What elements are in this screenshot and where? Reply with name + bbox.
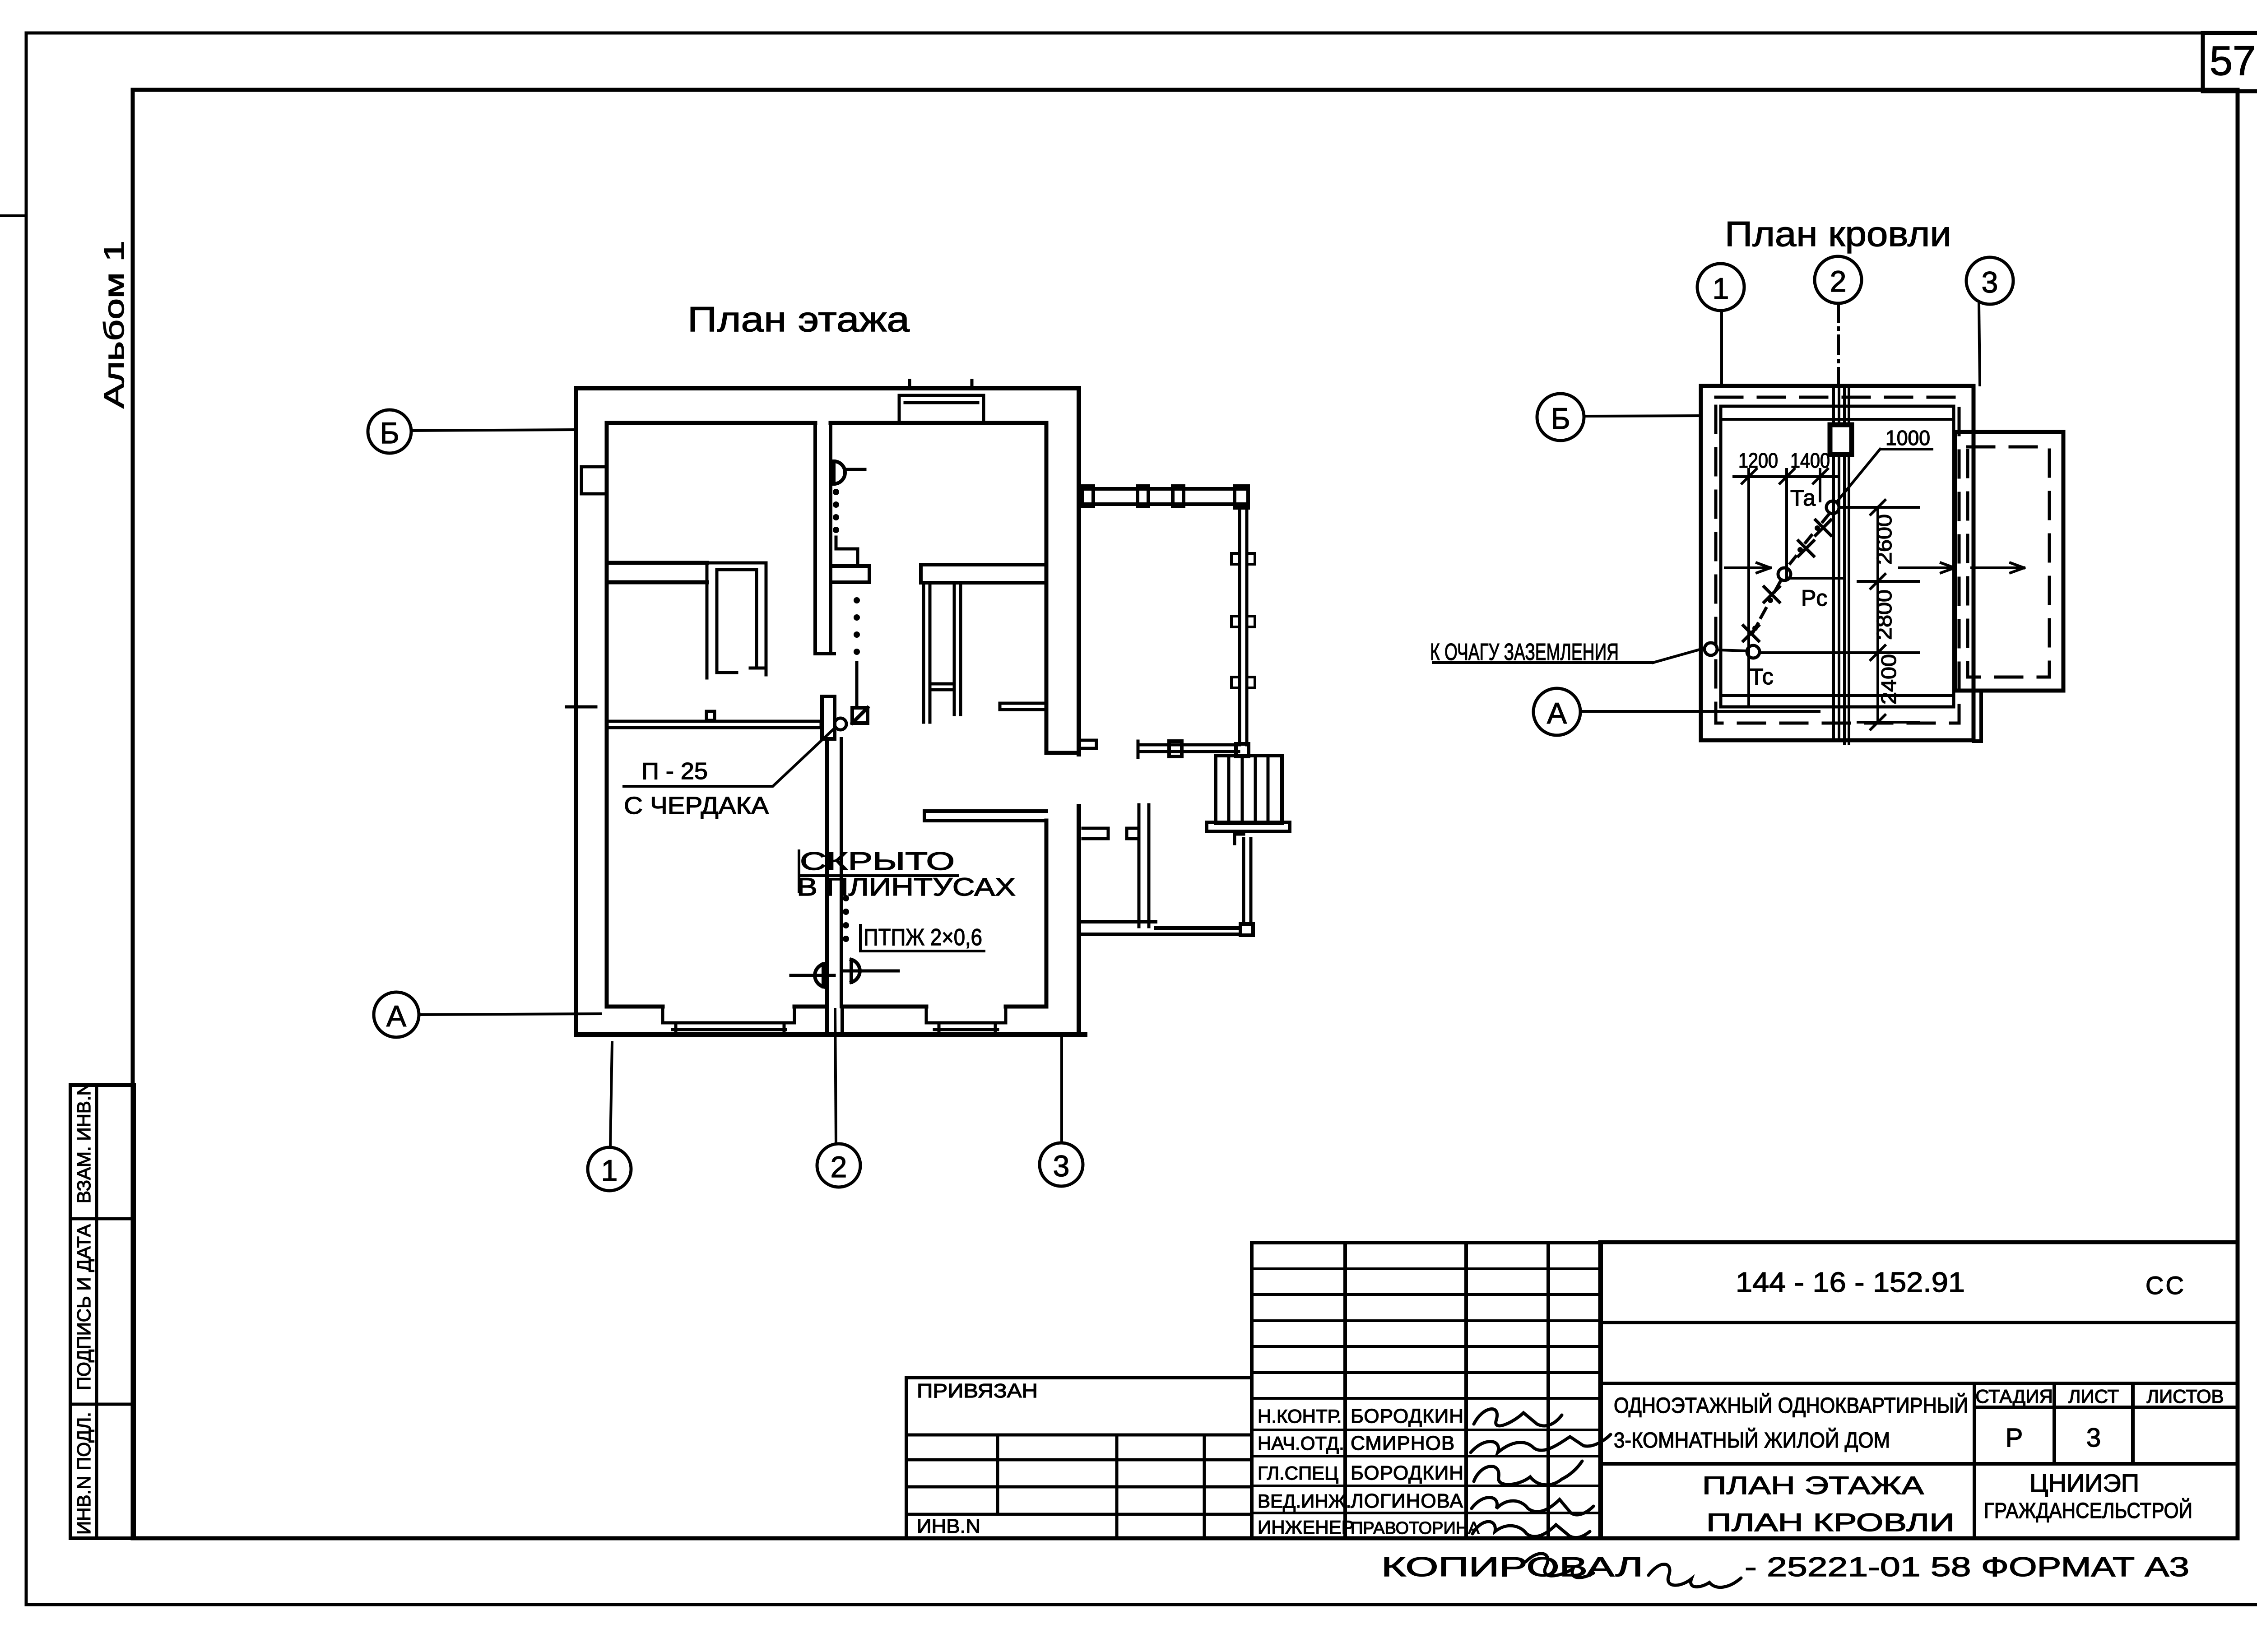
svg-text:144 - 16 - 152.91: 144 - 16 - 152.91: [1736, 1267, 1965, 1298]
leader P-25: [624, 729, 834, 786]
bottom-left stamp strip: [70, 1085, 134, 1538]
stamp strip row divider 1: [70, 1217, 134, 1220]
wall top outer: [576, 386, 1079, 390]
junction circle: [835, 718, 846, 730]
svg-text:ПЛАН КРОВЛИ: ПЛАН КРОВЛИ: [1706, 1508, 1955, 1536]
partition bottom rooms: [827, 739, 841, 1007]
partition top rooms: [815, 423, 834, 654]
svg-text:Н.КОНТР.: Н.КОНТР.: [1258, 1406, 1342, 1427]
signatures squiggles: [1471, 1409, 1741, 1587]
stair landing: [1207, 822, 1290, 831]
wall right inner face: [1045, 423, 1049, 753]
svg-text:2: 2: [1830, 265, 1847, 298]
lamp symbol right: [851, 960, 860, 982]
svg-text:КОПИРОВАЛ: КОПИРОВАЛ: [1381, 1552, 1643, 1582]
svg-text:СМИРНОВ: СМИРНОВ: [1351, 1432, 1455, 1454]
attachment table outline: [906, 1378, 1252, 1538]
svg-text:- 25221-01 58 ФОРМАТ А3: - 25221-01 58 ФОРМАТ А3: [1745, 1552, 2189, 1582]
Pc horizontal line: [1791, 577, 1844, 580]
wall right outer lower: [1077, 806, 1081, 1035]
svg-text:Б: Б: [1551, 402, 1570, 435]
veranda right wall upper: [1240, 504, 1247, 745]
dim slash ticks top: [1742, 469, 1828, 483]
underline ptpzh: [860, 950, 984, 952]
axis B leader: [411, 430, 576, 431]
svg-text:2600: 2600: [1872, 514, 1896, 565]
wall left outer: [574, 388, 578, 1035]
svg-text:1200: 1200: [1738, 449, 1778, 472]
grounding note leader: [1653, 648, 1704, 663]
axis A leader: [419, 1014, 600, 1015]
main title box: [1600, 1242, 2238, 1538]
axis B circle roof: [1537, 394, 1584, 441]
axis 1 circle: [588, 1147, 631, 1191]
lamp symbol left: [815, 964, 823, 987]
axis 1 leader: [610, 1043, 612, 1147]
svg-text:ЛИСТОВ: ЛИСТОВ: [2146, 1386, 2224, 1407]
svg-text:А: А: [386, 999, 406, 1033]
svg-text:К ОЧАГУ ЗАЗЕМЛЕНИЯ: К ОЧАГУ ЗАЗЕМЛЕНИЯ: [1430, 639, 1619, 665]
roof dashed eaves rect: [1716, 397, 1959, 723]
lower wall top hook: [1235, 834, 1244, 844]
closet top-left room: [707, 563, 766, 678]
lamp right stem: [841, 970, 898, 973]
svg-text:СС: СС: [2146, 1271, 2186, 1299]
ptpzh tick: [859, 925, 862, 951]
veranda top posts: [1082, 486, 1093, 506]
wall bottom inner segments: [607, 1005, 1046, 1009]
roof inner wall rect: [1721, 406, 1954, 707]
svg-text:А: А: [1547, 696, 1567, 730]
svg-text:План кровли: План кровли: [1725, 214, 1951, 254]
veranda railing to stair: [1138, 741, 1239, 757]
svg-text:ПОДПИСЬ И ДАТА: ПОДПИСЬ И ДАТА: [73, 1224, 94, 1390]
tie from house wall lower: [1083, 828, 1108, 839]
conductor Ta to chimney diagonal: [1837, 449, 1880, 502]
underline skryto: [800, 874, 958, 877]
wall tie tick left wall: [567, 705, 596, 709]
svg-text:ВЗАМ. ИНВ.N: ВЗАМ. ИНВ.N: [73, 1082, 94, 1203]
dim extension line x1200: [1747, 469, 1750, 707]
hidden wiring dots upper: [833, 489, 839, 533]
wall right inner lower: [1045, 821, 1049, 1007]
thin partition bottom-left room: [610, 721, 821, 728]
Pc circle: [1778, 568, 1791, 580]
svg-text:БОРОДКИН: БОРОДКИН: [1351, 1405, 1464, 1427]
conductor dashdot Ta-Pc: [1790, 515, 1829, 563]
svg-text:ОДНОЭТАЖНЫЙ ОДНОКВАРТИРНЫЙ: ОДНОЭТАЖНЫЙ ОДНОКВАРТИРНЫЙ: [1614, 1393, 1968, 1418]
slope arrow left: [1725, 563, 1770, 573]
duct partition living room: [924, 583, 961, 722]
svg-text:1400: 1400: [1790, 449, 1830, 472]
Tc horizontal dim line: [1760, 651, 1918, 654]
svg-text:1000: 1000: [1885, 426, 1930, 450]
dim extension line x1400: [1785, 469, 1788, 580]
label 1000 underline: [1880, 448, 1932, 450]
veranda roof rect: [1955, 432, 2063, 691]
axis B leader roof: [1584, 416, 1700, 416]
svg-text:СКРЫТО: СКРЫТО: [800, 847, 955, 875]
axis 2 circle roof: [1815, 256, 1862, 303]
grounding conductor Ta circle: [1826, 501, 1839, 514]
svg-text:П - 25: П - 25: [641, 758, 708, 784]
wall top inner face left segment: [607, 421, 815, 425]
tie from house wall upper: [1081, 740, 1096, 748]
wiring jog: [836, 537, 858, 565]
axis B circle: [368, 410, 411, 453]
canopy tick 2: [971, 381, 974, 388]
slope arrow right: [1972, 563, 2024, 573]
Ta level dim line: [1839, 506, 1918, 509]
wall bottom outer: [576, 1032, 1085, 1037]
svg-text:Р: Р: [2006, 1423, 2023, 1452]
svg-text:ЦНИИЭП: ЦНИИЭП: [2029, 1469, 2139, 1497]
canopy tick 1: [908, 381, 911, 388]
top-left room bottom wall band: [607, 563, 707, 582]
Tc circle: [1747, 645, 1760, 658]
stamp strip column divider: [95, 1085, 98, 1538]
svg-text:В ПЛИНТУСАХ: В ПЛИНТУСАХ: [797, 872, 1016, 901]
svg-text:2800: 2800: [1872, 589, 1896, 640]
veranda inner L post: [1127, 805, 1149, 927]
svg-text:НАЧ.ОТД.: НАЧ.ОТД.: [1258, 1433, 1344, 1454]
signature table: [1252, 1243, 1601, 1538]
svg-text:ГРАЖДАНСЕЛЬСТРОЙ: ГРАЖДАНСЕЛЬСТРОЙ: [1984, 1498, 2192, 1523]
svg-text:ПРАВОТОРИНА: ПРАВОТОРИНА: [1351, 1519, 1480, 1538]
svg-text:57: 57: [2210, 38, 2256, 84]
dim extension line right: [1819, 469, 1821, 501]
door post mid plan: [822, 696, 835, 739]
conductor dashdot Pc-Tc: [1753, 582, 1780, 632]
svg-text:2: 2: [831, 1150, 847, 1183]
svg-text:2400: 2400: [1877, 654, 1900, 705]
svg-text:Та: Та: [1790, 485, 1816, 510]
fold mark left margin: [1, 214, 25, 217]
axis 3 circle roof: [1966, 257, 2013, 304]
stub wall segment: [831, 566, 869, 582]
X marks Ta-Pc: [1798, 520, 1831, 556]
right dim slash ticks: [1871, 500, 1885, 729]
svg-text:ПЛАН ЭТАЖА: ПЛАН ЭТАЖА: [1702, 1471, 1924, 1499]
axis 1 leader roof: [1720, 311, 1723, 385]
title block texts: [917, 1267, 2224, 1582]
roof inner second bottom line: [1721, 694, 1954, 697]
veranda right wall lower: [1244, 839, 1251, 924]
window W2 bottom: [926, 1007, 1006, 1034]
roof bottom right step: [1974, 691, 1981, 741]
svg-text:Альбом 1: Альбом 1: [99, 241, 130, 408]
axis 1 circle roof: [1697, 264, 1744, 311]
bottom-right room top wall: [924, 811, 1046, 821]
svg-text:ЛИСТ: ЛИСТ: [2068, 1386, 2119, 1407]
stair treads: [1229, 756, 1268, 823]
railing post square: [1169, 741, 1182, 756]
axis 3 leader roof: [1979, 304, 1980, 385]
axis 2 circle: [817, 1144, 860, 1187]
svg-text:1: 1: [1713, 272, 1729, 305]
axis 3 leader: [1060, 1036, 1063, 1143]
junction box P-25: [852, 708, 868, 723]
svg-text:3: 3: [2086, 1423, 2101, 1452]
veranda top wall: [1079, 489, 1248, 504]
dim line horizontal top: [1734, 475, 1836, 478]
axis A circle roof: [1533, 688, 1580, 735]
ground connection circle on eaves: [1704, 643, 1717, 655]
roof inner second top line: [1721, 418, 1954, 421]
svg-text:3: 3: [1982, 265, 1998, 299]
chimney: [1830, 425, 1852, 455]
veranda bottom corner square: [1240, 924, 1253, 935]
svg-text:ИНЖЕНЕР: ИНЖЕНЕР: [1258, 1517, 1354, 1538]
lamp left stem: [791, 974, 834, 977]
leader skryto tick: [798, 851, 800, 891]
svg-text:3: 3: [1053, 1149, 1070, 1183]
hidden wiring dots mid: [854, 597, 860, 655]
stamp strip row divider 2: [70, 1403, 134, 1406]
wall left inner face: [605, 423, 609, 1007]
hidden wiring dots lower: [843, 895, 849, 942]
door jambs bottom door: [827, 1007, 842, 1035]
roof outer rect: [1701, 386, 1974, 740]
axis 2 leader roof dash-dot: [1837, 303, 1840, 385]
wall right outer upper: [1077, 388, 1081, 754]
svg-text:БОРОДКИН: БОРОДКИН: [1351, 1462, 1464, 1484]
axis 3 circle: [1040, 1143, 1083, 1186]
svg-text:ПТПЖ 2×0,6: ПТПЖ 2×0,6: [864, 924, 982, 951]
sheet number box: [2203, 33, 2257, 91]
svg-text:Б: Б: [380, 416, 399, 450]
window W3 left wall: [581, 467, 607, 494]
wall top inner face right segment: [831, 421, 1044, 425]
veranda roof dashed rect: [1968, 447, 2049, 677]
sconce on partition: [834, 461, 845, 484]
axis A circle: [374, 992, 419, 1037]
bottom dim line: [1858, 721, 1918, 724]
Tc to eaves line: [1717, 650, 1747, 651]
svg-text:Рс: Рс: [1801, 585, 1827, 611]
svg-text:План этажа: План этажа: [687, 299, 910, 339]
svg-text:ИНВ.N ПОДЛ.: ИНВ.N ПОДЛ.: [73, 1412, 94, 1535]
slope arrow mid: [1899, 563, 1955, 573]
veranda bottom wall: [1083, 922, 1240, 934]
roof valley lines: [1834, 386, 1849, 744]
wall right jog at passage: [1046, 751, 1079, 755]
axis A leader roof: [1580, 710, 1819, 713]
svg-text:ИНВ.N: ИНВ.N: [917, 1515, 980, 1537]
veranda wall ties: [1231, 553, 1255, 564]
X marks Pc-Tc: [1743, 587, 1779, 641]
wiring drop to box: [855, 663, 859, 707]
svg-text:1: 1: [601, 1154, 618, 1187]
door stop square on thin partition: [706, 711, 715, 720]
svg-text:С ЧЕРДАКА: С ЧЕРДАКА: [624, 792, 769, 819]
sconce stem: [846, 468, 865, 471]
svg-text:ГЛ.СПЕЦ: ГЛ.СПЕЦ: [1258, 1462, 1338, 1484]
stair box: [1216, 756, 1282, 823]
mid dim line 2600-2800: [1858, 580, 1918, 583]
veranda corner post above stair: [1236, 744, 1249, 756]
living room bottom wall band: [921, 565, 1045, 583]
entrance door recess: [899, 395, 984, 422]
window W1 bottom: [663, 1007, 794, 1034]
svg-text:ВЕД.ИНЖ.: ВЕД.ИНЖ.: [1258, 1490, 1351, 1512]
kitchen shelf: [1000, 703, 1045, 710]
svg-text:Тс: Тс: [1750, 664, 1774, 689]
svg-text:3-КОМНАТНЫЙ ЖИЛОЙ ДОМ: 3-КОМНАТНЫЙ ЖИЛОЙ ДОМ: [1614, 1428, 1890, 1452]
axis 2 leader: [835, 1009, 836, 1144]
svg-text:ЛОГИНОВА: ЛОГИНОВА: [1351, 1490, 1463, 1512]
svg-text:СТАДИЯ: СТАДИЯ: [1975, 1386, 2053, 1407]
right dim vertical line: [1876, 507, 1879, 722]
svg-text:ПРИВЯЗАН: ПРИВЯЗАН: [917, 1380, 1038, 1402]
grounding note underline: [1433, 661, 1653, 664]
